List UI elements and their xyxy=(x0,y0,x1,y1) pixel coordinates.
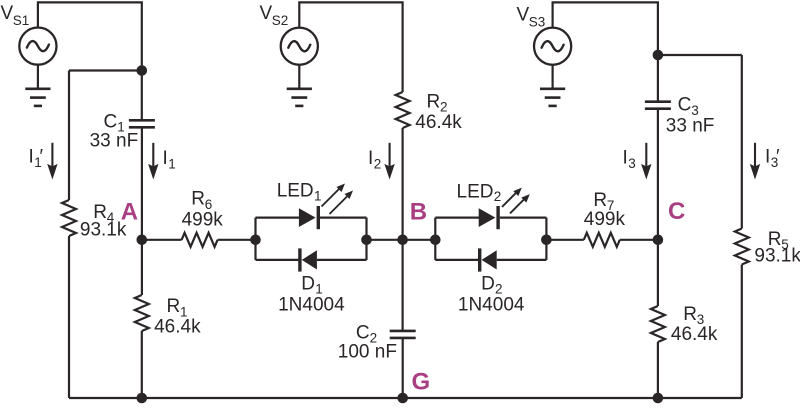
current arrow I1 xyxy=(148,143,158,180)
junction node C xyxy=(653,235,664,246)
current arrow I3' xyxy=(750,143,760,180)
svg-text:1: 1 xyxy=(314,189,322,204)
ground (VS3) xyxy=(540,65,565,106)
junction R1 at ground rail xyxy=(137,393,148,404)
wire LED1 block left side xyxy=(254,218,256,260)
wire VS1 top loop xyxy=(38,2,142,70)
svg-text:LED: LED xyxy=(457,182,494,203)
wire to C1 top xyxy=(141,71,143,121)
label R3 xyxy=(683,304,704,327)
svg-text:′: ′ xyxy=(776,147,780,168)
svg-text:D: D xyxy=(301,273,315,294)
label C1 xyxy=(104,111,125,134)
svg-text:1: 1 xyxy=(168,157,176,172)
ground (VS1) xyxy=(25,65,50,106)
svg-text:33 nF: 33 nF xyxy=(666,116,715,137)
junction LED1 block left xyxy=(250,235,261,246)
wire R2 through node B to C2 xyxy=(402,128,404,331)
ground (VS2) xyxy=(287,65,312,106)
svg-text:46.4k: 46.4k xyxy=(154,316,201,337)
wire LED2 block left side xyxy=(434,218,436,260)
svg-text:I: I xyxy=(623,148,628,169)
resistor R6 xyxy=(182,233,218,247)
label R4 xyxy=(93,202,115,225)
label D2 xyxy=(481,273,502,296)
wire LED1 block right side xyxy=(365,218,367,260)
voltage source VS1 xyxy=(19,27,56,64)
svg-text:S1: S1 xyxy=(13,13,30,28)
svg-text:3: 3 xyxy=(628,156,636,171)
wire right branch lower xyxy=(741,265,743,399)
label R5 xyxy=(768,229,789,252)
wire LED1 block to node B to LED2 block xyxy=(367,239,436,241)
svg-text:R: R xyxy=(683,304,697,325)
svg-text:I: I xyxy=(368,148,373,169)
wire D2 anode lead xyxy=(497,259,547,261)
svg-text:2: 2 xyxy=(374,156,382,171)
junction node A xyxy=(137,235,148,246)
svg-text:A: A xyxy=(121,199,138,226)
junction R3 at ground rail xyxy=(653,393,664,404)
svg-text:I: I xyxy=(765,147,770,168)
svg-text:1N4004: 1N4004 xyxy=(278,295,345,316)
current arrow I3 xyxy=(641,143,651,180)
resistor R4 xyxy=(62,200,76,236)
svg-text:S3: S3 xyxy=(529,15,546,30)
svg-text:I: I xyxy=(163,148,168,169)
wire LED1 anode lead xyxy=(256,217,300,219)
wire VS3 top loop xyxy=(553,2,658,55)
capacitor C2 100 nF xyxy=(390,331,416,338)
resistor R7 xyxy=(584,233,620,247)
junction node G on ground rail xyxy=(397,393,408,404)
LED LED2 xyxy=(479,206,500,229)
wire to C3 top xyxy=(657,55,659,102)
svg-text:93.1k: 93.1k xyxy=(754,246,800,267)
svg-text:LED: LED xyxy=(277,180,314,201)
label C3 xyxy=(678,95,699,118)
wire D2 cathode lead xyxy=(435,259,478,261)
resistor R2 xyxy=(396,92,410,128)
LED1 light emission arrows xyxy=(322,184,354,215)
svg-text:I: I xyxy=(29,147,34,168)
wire junction to right branch xyxy=(658,54,742,56)
wire C2 to node G xyxy=(402,338,404,398)
svg-text:100 nF: 100 nF xyxy=(338,342,397,363)
svg-text:V: V xyxy=(517,5,530,26)
wire left branch lower xyxy=(68,236,70,398)
svg-text:R: R xyxy=(427,91,441,112)
wire C3 through node C to R3 xyxy=(657,109,659,306)
svg-text:′: ′ xyxy=(40,147,44,168)
label current I1' xyxy=(29,147,44,171)
capacitor C3 33 nF xyxy=(645,102,671,109)
voltage source VS2 xyxy=(281,28,318,65)
svg-text:R: R xyxy=(167,296,181,317)
svg-text:G: G xyxy=(412,368,431,395)
label current I2 xyxy=(368,148,381,172)
label R7 xyxy=(593,190,614,213)
label VS2 xyxy=(260,3,289,28)
wire R7 to node C xyxy=(620,239,658,241)
svg-text:R: R xyxy=(191,189,205,210)
svg-text:C: C xyxy=(356,322,370,343)
LED2 light emission arrows xyxy=(502,188,530,214)
svg-text:B: B xyxy=(410,199,427,226)
current arrow I2 xyxy=(384,143,394,180)
label VS1 xyxy=(1,3,30,28)
current arrow I1' xyxy=(47,143,57,180)
wire left branch upper xyxy=(68,71,70,201)
resistor R3 xyxy=(651,306,665,342)
label LED2 xyxy=(457,182,502,204)
wire LED1 cathode lead xyxy=(320,217,367,219)
label VS3 xyxy=(517,5,546,30)
junction node B xyxy=(397,235,408,246)
svg-text:D: D xyxy=(481,273,495,294)
wire junction to left branch xyxy=(69,69,142,71)
label D1 xyxy=(301,273,322,296)
svg-text:V: V xyxy=(260,3,273,24)
label current I1 xyxy=(163,148,176,172)
label current I3' xyxy=(765,147,780,171)
wire R3 to ground rail xyxy=(657,342,659,398)
svg-text:46.4k: 46.4k xyxy=(671,324,718,345)
svg-text:46.4k: 46.4k xyxy=(415,112,462,133)
svg-text:2: 2 xyxy=(494,189,502,204)
diode D2 1N4004 xyxy=(478,248,497,271)
wire LED2 block right side xyxy=(545,218,547,260)
wire VS2 top loop xyxy=(299,2,402,92)
resistor R5 xyxy=(735,229,749,265)
junction LED1 block right xyxy=(361,235,372,246)
junction LED2 block left xyxy=(430,235,441,246)
svg-text:S2: S2 xyxy=(272,13,289,28)
svg-text:C: C xyxy=(678,95,692,116)
svg-text:499k: 499k xyxy=(182,209,224,230)
svg-text:1N4004: 1N4004 xyxy=(458,295,525,316)
wire D1 anode lead xyxy=(317,259,367,261)
svg-text:V: V xyxy=(1,3,14,24)
wire LED2 block to R7 xyxy=(546,239,583,241)
wire LED2 anode lead xyxy=(435,217,479,219)
junction LED2 block right xyxy=(541,235,552,246)
label C2 xyxy=(356,322,377,345)
junction VS1/C1/left-branch xyxy=(137,65,148,76)
wire R1 to ground rail xyxy=(141,331,143,398)
wire C1 to node A to R1 xyxy=(141,127,143,295)
wire right branch upper xyxy=(741,55,743,229)
wire R6 to LED1 block xyxy=(218,239,256,241)
LED LED1 xyxy=(299,206,320,229)
svg-text:C: C xyxy=(104,111,118,132)
diode D1 1N4004 xyxy=(298,248,317,271)
svg-text:C: C xyxy=(668,198,685,225)
resistor R1 xyxy=(135,295,149,331)
capacitor C1 33 nF xyxy=(129,120,155,127)
svg-text:R: R xyxy=(593,190,607,211)
wire bottom ground rail G xyxy=(69,397,742,399)
label LED1 xyxy=(277,180,322,203)
junction VS3/C3/right-branch xyxy=(653,50,664,61)
svg-text:499k: 499k xyxy=(584,209,626,230)
svg-text:33 nF: 33 nF xyxy=(90,131,139,152)
wire node A to R6 xyxy=(142,239,182,241)
label R2 xyxy=(427,91,448,114)
label current I3 xyxy=(623,148,636,172)
voltage source VS3 xyxy=(534,28,571,65)
wire D1 cathode lead xyxy=(256,259,299,261)
label R1 xyxy=(167,296,188,319)
wire LED2 cathode lead xyxy=(500,217,547,219)
label R6 xyxy=(191,189,212,212)
